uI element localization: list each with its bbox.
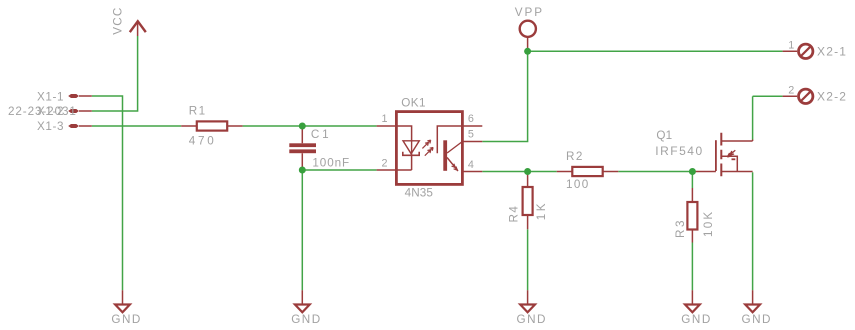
svg-text:2: 2 [788, 84, 794, 96]
svg-text:Q1: Q1 [656, 129, 672, 142]
svg-text:470: 470 [189, 135, 217, 148]
svg-text:2: 2 [382, 157, 388, 169]
svg-text:VCC: VCC [111, 7, 124, 35]
svg-text:X1-2: X1-2 [37, 105, 64, 118]
svg-text:GND: GND [291, 313, 321, 326]
svg-text:1K: 1K [535, 201, 548, 220]
svg-text:X2-1: X2-1 [817, 44, 847, 58]
svg-text:4N35: 4N35 [405, 187, 434, 200]
svg-text:10K: 10K [702, 210, 715, 237]
svg-text:100: 100 [566, 178, 590, 191]
svg-text:OK1: OK1 [401, 97, 426, 110]
svg-text:X1-1: X1-1 [37, 90, 64, 103]
svg-text:X1-3: X1-3 [37, 120, 64, 133]
svg-text:R1: R1 [189, 105, 207, 118]
svg-text:100nF: 100nF [312, 156, 350, 169]
svg-text:6: 6 [468, 113, 474, 125]
svg-text:1: 1 [382, 113, 388, 125]
svg-text:C1: C1 [311, 128, 332, 141]
svg-text:GND: GND [111, 313, 141, 326]
svg-text:GND: GND [742, 313, 772, 326]
svg-text:4: 4 [468, 159, 474, 171]
svg-text:1: 1 [788, 39, 794, 51]
svg-text:R2: R2 [566, 150, 584, 163]
svg-text:X2-2: X2-2 [817, 89, 847, 103]
svg-text:5: 5 [468, 128, 474, 140]
svg-text:VPP: VPP [515, 6, 544, 19]
svg-text:GND: GND [681, 313, 711, 326]
svg-text:R3: R3 [674, 218, 687, 238]
svg-text:GND: GND [517, 313, 547, 326]
svg-text:R4: R4 [507, 205, 520, 223]
svg-text:IRF540: IRF540 [655, 144, 703, 158]
